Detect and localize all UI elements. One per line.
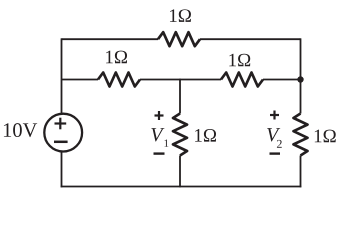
voltage source V=10V (circle) bbox=[44, 114, 82, 152]
label V1 subscript 1 bbox=[164, 140, 168, 147]
label 1-ohm middle-right resistor bbox=[229, 54, 250, 67]
label V1 node voltage (V) bbox=[151, 128, 164, 141]
voltage source plus terminal mark bbox=[55, 118, 67, 130]
wire: left vertical lower bbox=[61, 152, 63, 188]
voltage source minus terminal mark bbox=[54, 141, 68, 144]
label 1-ohm V1 resistor bbox=[195, 129, 216, 142]
resistor 1-ohm V1 branch (body) bbox=[173, 114, 187, 156]
resistor 1-ohm V2 branch (body) bbox=[294, 114, 308, 156]
resistor 1-ohm top (body) bbox=[158, 32, 200, 46]
wire: right vertical lower bbox=[300, 156, 302, 188]
label 1-ohm V2 resistor bbox=[315, 130, 336, 143]
wire: V1 branch vertical lower bbox=[179, 156, 181, 188]
wire: right vertical upper bbox=[300, 38, 302, 113]
label 1-ohm middle-left resistor bbox=[106, 51, 127, 64]
resistor 1-ohm middle-right (body) bbox=[221, 73, 263, 87]
wire: top horizontal right piece bbox=[200, 38, 301, 40]
V1 plus polarity mark bbox=[155, 111, 164, 120]
wire: left vertical upper bbox=[61, 38, 63, 113]
label V2 node voltage (V) bbox=[267, 128, 280, 141]
wire: top horizontal left piece bbox=[62, 38, 159, 40]
wire: middle horizontal right piece bbox=[263, 79, 301, 81]
wire: bottom horizontal bbox=[61, 186, 302, 188]
V2 minus polarity mark bbox=[270, 152, 281, 154]
label V2 subscript 2 bbox=[277, 140, 282, 148]
junction node dot bbox=[297, 76, 303, 82]
label 1-ohm top resistor bbox=[170, 9, 191, 22]
V1 minus polarity mark bbox=[154, 152, 165, 154]
wire: middle horizontal center piece bbox=[140, 79, 221, 81]
V2 plus polarity mark bbox=[270, 111, 279, 120]
wire: middle horizontal left piece bbox=[62, 79, 99, 81]
label 10V source value bbox=[4, 123, 37, 137]
resistor 1-ohm middle-left (body) bbox=[98, 73, 140, 87]
wire: V1 branch vertical upper bbox=[179, 79, 181, 114]
